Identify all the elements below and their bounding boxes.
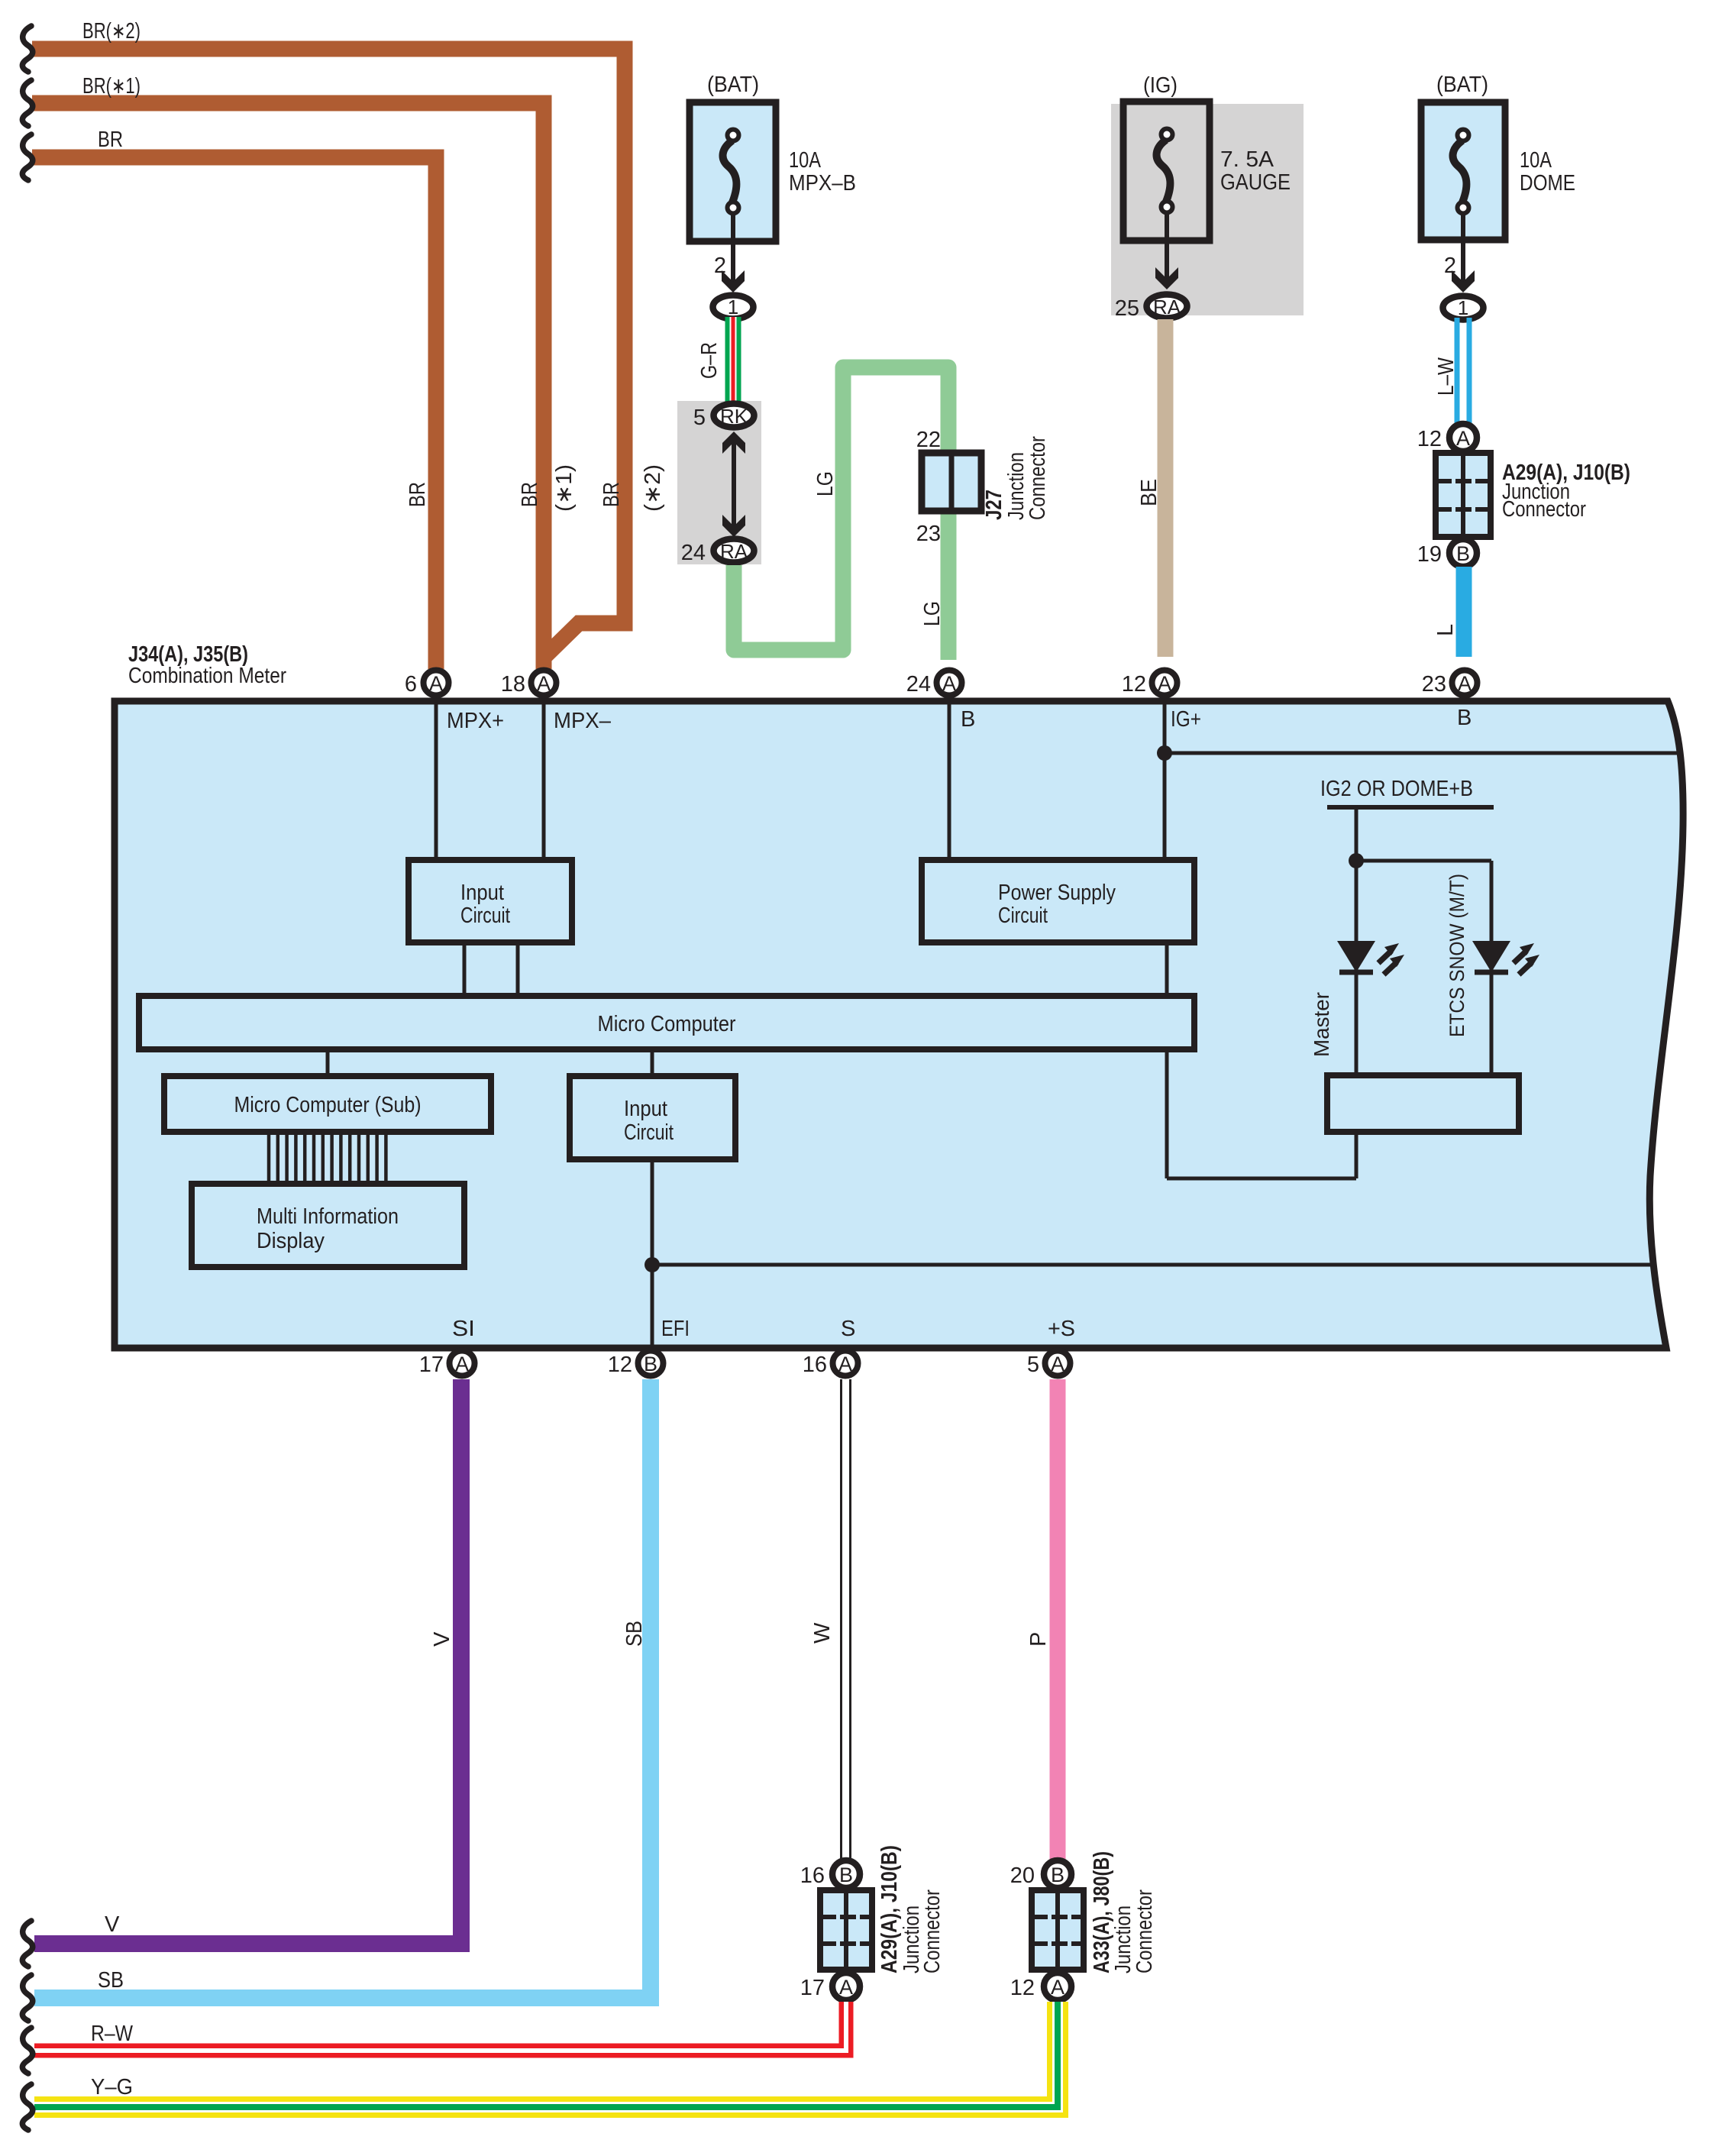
internal wire pin24 to power supply: [948, 699, 951, 860]
svg-text:A: A: [1051, 1353, 1064, 1375]
svg-text:7. 5A: 7. 5A: [1220, 147, 1274, 172]
svg-text:G–R: G–R: [697, 342, 722, 379]
svg-text:SB: SB: [622, 1621, 647, 1647]
svg-text:MPX–B: MPX–B: [789, 171, 856, 196]
continuation curl BR: [22, 134, 32, 180]
svg-text:S: S: [841, 1317, 855, 1341]
power supply circuit box: [922, 860, 1194, 942]
wire V: [34, 1379, 461, 1944]
meter pin 6 A: [424, 671, 449, 696]
svg-text:19: 19: [1417, 542, 1442, 567]
input circuit box 1: [409, 860, 572, 942]
svg-text:GAUGE: GAUGE: [1220, 170, 1291, 195]
svg-text:A: A: [1456, 427, 1470, 450]
internal wire pin12 IG+ to power supply: [1163, 699, 1167, 860]
arrow into RA: [1155, 267, 1178, 289]
svg-text:BR: BR: [98, 128, 123, 152]
meter pin 5 A: [1045, 1351, 1071, 1376]
svg-text:BR: BR: [518, 482, 542, 507]
svg-text:23: 23: [1422, 672, 1446, 697]
svg-text:BR(∗2): BR(∗2): [82, 19, 141, 44]
svg-text:Micro Computer: Micro Computer: [598, 1012, 736, 1036]
svg-text:5: 5: [1027, 1353, 1039, 1377]
svg-text:W: W: [810, 1622, 835, 1644]
svg-text:IG+: IG+: [1171, 707, 1201, 732]
svg-text:Circuit: Circuit: [624, 1120, 674, 1145]
svg-text:BR(∗1): BR(∗1): [82, 74, 141, 99]
micro computer bar: [139, 996, 1194, 1049]
wire IG+ branch to right edge: [1165, 752, 1681, 755]
svg-text:20: 20: [1010, 1863, 1035, 1888]
wire input circuit to micro computer (left stub): [463, 942, 467, 996]
svg-text:(∗1): (∗1): [552, 464, 577, 512]
wire from gauge fuse to RA: [1165, 212, 1169, 283]
wire EFI branch to right edge: [652, 1263, 1652, 1267]
wire P: [1050, 1379, 1066, 1860]
internal wire pin18 to input circuit: [542, 699, 546, 860]
svg-text:MPX+: MPX+: [447, 709, 504, 733]
svg-text:12: 12: [1010, 1976, 1035, 2000]
wire L: [1456, 567, 1472, 657]
meter pin 24 A: [937, 671, 962, 696]
meter pin 12 A: [1152, 671, 1178, 696]
svg-text:Input: Input: [460, 881, 504, 905]
continuation curl BR(*2): [22, 26, 32, 72]
svg-text:24: 24: [906, 672, 931, 697]
svg-text:1: 1: [1458, 296, 1468, 319]
svg-text:Multi Information: Multi Information: [257, 1204, 399, 1229]
fuse 7.5A GAUGE: [1123, 73, 1291, 241]
svg-text:Display: Display: [257, 1229, 325, 1253]
svg-text:LG: LG: [920, 601, 945, 626]
svg-text:B: B: [839, 1863, 853, 1886]
svg-text:18: 18: [501, 672, 525, 697]
svg-text:SI: SI: [452, 1317, 475, 1341]
wire ETCS LED down: [1490, 861, 1494, 1075]
connector oval 1 (MPX-B): [713, 296, 754, 319]
internal wire pin6 to input circuit: [435, 699, 438, 860]
svg-text:Combination Meter: Combination Meter: [128, 664, 286, 688]
wire LED branch right: [1356, 859, 1491, 863]
ribbon bus to display: [269, 1132, 386, 1185]
svg-text:10A: 10A: [1520, 148, 1552, 173]
svg-text:Power Supply: Power Supply: [998, 881, 1116, 905]
continuation curl Y-G: [22, 2084, 32, 2130]
svg-text:V: V: [430, 1631, 454, 1647]
svg-text:L–W: L–W: [1434, 357, 1459, 396]
double arrow between RK and RA: [732, 439, 736, 531]
wire power supply to micro computer: [1165, 942, 1169, 996]
wire BR(*2): [32, 49, 625, 669]
svg-text:5: 5: [693, 406, 706, 430]
junction connector A29(A), J10(B) top: [1417, 424, 1630, 567]
meter pin 17 A: [450, 1351, 475, 1376]
micro computer (sub) box: [164, 1076, 491, 1132]
wire W: [842, 1379, 851, 1860]
wire LG from RA to meter pin 24: [734, 367, 948, 660]
svg-text:A: A: [429, 672, 443, 695]
svg-text:RA: RA: [1153, 296, 1181, 318]
svg-text:6: 6: [405, 672, 417, 697]
svg-text:RK: RK: [720, 405, 748, 428]
svg-text:12: 12: [608, 1353, 632, 1377]
junction connector A33(A), J80(B): [1010, 1851, 1157, 2000]
connector oval RK pin 5: [714, 404, 754, 428]
svg-text:16: 16: [803, 1353, 827, 1377]
svg-text:12: 12: [1122, 672, 1146, 697]
svg-text:R–W: R–W: [91, 2022, 134, 2046]
combination meter body: [115, 701, 1683, 1348]
junction connector J27: [916, 428, 1050, 546]
svg-text:MPX–: MPX–: [554, 709, 612, 733]
wire input circuit to micro computer (right stub): [516, 942, 520, 996]
svg-text:A: A: [1458, 672, 1472, 695]
svg-text:L: L: [1433, 624, 1458, 636]
svg-text:17: 17: [800, 1976, 825, 2000]
svg-text:B: B: [1051, 1863, 1064, 1886]
svg-text:A: A: [1158, 672, 1171, 695]
svg-text:17: 17: [419, 1353, 444, 1377]
svg-text:(∗2): (∗2): [641, 464, 665, 512]
arrow into connector 1: [1452, 270, 1475, 293]
wire BR: [32, 157, 436, 669]
svg-text:A29(A), J10(B): A29(A), J10(B): [877, 1845, 902, 1973]
connector oval 1 (DOME): [1443, 296, 1484, 320]
fuse 10A MPX-B: [690, 73, 856, 241]
svg-text:+S: +S: [1048, 1317, 1075, 1341]
LED Master: [1337, 941, 1404, 975]
svg-text:RA: RA: [720, 540, 748, 563]
svg-text:P: P: [1026, 1632, 1051, 1647]
svg-text:Connector: Connector: [1132, 1889, 1157, 1973]
wire BR(*1): [32, 103, 544, 669]
svg-text:A: A: [839, 1976, 853, 1999]
junction dot EFI: [645, 1257, 660, 1272]
arrow into connector 1: [722, 270, 745, 293]
meter pin 12 B: [638, 1351, 664, 1376]
svg-text:(BAT): (BAT): [1436, 73, 1488, 97]
svg-text:Master: Master: [1310, 992, 1333, 1057]
connector oval RA pin 25: [1147, 295, 1187, 318]
svg-text:16: 16: [800, 1863, 825, 1888]
input circuit box 2: [570, 1076, 735, 1159]
junction connector A29(A), J10(B) bottom: [800, 1845, 945, 2000]
LED ETCS SNOW: [1472, 941, 1539, 975]
svg-text:25: 25: [1115, 296, 1139, 321]
svg-text:Micro Computer (Sub): Micro Computer (Sub): [234, 1093, 422, 1117]
wire from dome fuse to connector 1: [1461, 213, 1465, 284]
wire LED box to micro computer path: [1355, 1132, 1358, 1178]
svg-text:B: B: [644, 1353, 657, 1375]
svg-text:(BAT): (BAT): [707, 73, 759, 97]
svg-text:BR: BR: [599, 482, 624, 507]
wire L-W: [1455, 318, 1472, 425]
wire micro computer to input circuit 2: [651, 1049, 654, 1076]
meter pin 18 A: [531, 671, 557, 696]
svg-text:B: B: [1456, 542, 1470, 565]
svg-text:A: A: [942, 672, 956, 695]
svg-text:Y–G: Y–G: [91, 2075, 133, 2099]
svg-text:EFI: EFI: [661, 1317, 690, 1341]
svg-text:A: A: [455, 1353, 469, 1375]
svg-text:Connector: Connector: [1502, 497, 1586, 522]
svg-text:A: A: [537, 672, 551, 695]
svg-text:ETCS SNOW (M/T): ETCS SNOW (M/T): [1446, 874, 1468, 1037]
svg-text:A: A: [838, 1353, 852, 1375]
svg-text:Circuit: Circuit: [460, 903, 510, 928]
svg-text:12: 12: [1417, 427, 1442, 451]
continuation curl BR(*1): [22, 80, 32, 126]
svg-text:B: B: [961, 707, 975, 732]
svg-text:LG: LG: [813, 471, 838, 496]
connector oval RA pin 24: [714, 539, 754, 563]
meter pin 16 A: [833, 1351, 858, 1376]
svg-text:V: V: [105, 1912, 120, 1937]
wire G-R: [725, 317, 741, 405]
LED driver box: [1327, 1075, 1519, 1132]
svg-text:SB: SB: [98, 1968, 124, 1993]
wire from node bar down: [1355, 807, 1358, 1075]
svg-text:(IG): (IG): [1143, 73, 1178, 98]
svg-text:1: 1: [728, 296, 738, 318]
svg-text:BR: BR: [405, 482, 430, 507]
gray box behind IG gauge fuse: [1111, 104, 1304, 315]
svg-text:Connector: Connector: [1026, 436, 1050, 520]
continuation curl R-W: [22, 2028, 32, 2074]
junction dot IG+: [1157, 745, 1172, 761]
svg-text:Circuit: Circuit: [998, 903, 1048, 928]
svg-text:A: A: [1051, 1976, 1064, 1999]
multi information display box: [192, 1184, 464, 1267]
fuse 10A DOME: [1421, 73, 1575, 240]
wire Y-G: [34, 2002, 1058, 2107]
gray box behind RK/RA connector: [677, 401, 761, 564]
wire R-W: [34, 2002, 846, 2051]
svg-text:BE: BE: [1137, 479, 1161, 506]
svg-text:DOME: DOME: [1520, 171, 1575, 196]
wire micro computer to sub: [326, 1049, 330, 1076]
svg-text:Input: Input: [624, 1097, 667, 1121]
node bar IG2 OR DOME+B: [1327, 805, 1494, 810]
svg-text:22: 22: [916, 428, 941, 452]
svg-text:J27: J27: [982, 490, 1006, 520]
wire BE: [1158, 319, 1174, 657]
wire SB: [34, 1379, 651, 1998]
junction dot LED branch: [1349, 853, 1364, 868]
wire input circuit 2 to EFI pin: [651, 1159, 654, 1347]
svg-text:IG2 OR DOME+B: IG2 OR DOME+B: [1320, 777, 1473, 801]
meter pin 23 A: [1452, 671, 1478, 696]
svg-text:23: 23: [916, 522, 941, 546]
svg-text:B: B: [1457, 706, 1472, 730]
continuation curl V: [22, 1921, 32, 1967]
continuation curl SB: [22, 1975, 32, 2021]
svg-text:24: 24: [681, 541, 706, 565]
svg-text:Connector: Connector: [920, 1889, 945, 1973]
wire from fuse to connector 1: [731, 213, 735, 284]
svg-text:10A: 10A: [789, 148, 822, 173]
